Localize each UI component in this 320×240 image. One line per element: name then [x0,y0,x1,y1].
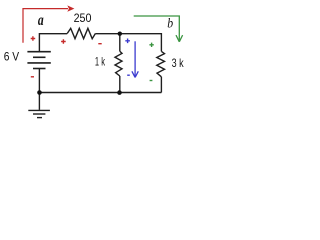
R2 plus sign (blue) [125,39,130,44]
node junction dot top of 1k [118,32,122,36]
voltage arrow across 1k (blue) [132,41,138,77]
wire battery bottom stub down to ground [38,69,40,110]
R3 minus sign (green) [150,80,153,82]
battery plus sign [31,36,36,41]
wire left riser and top-left segment [39,34,67,52]
svg-text:6 V: 6 V [4,50,19,64]
battery minus sign [31,76,34,78]
current arrow a head [67,5,74,11]
svg-text:a: a [38,12,44,29]
resistor R3 3k [157,51,165,76]
R3 plus sign (green) [149,43,153,47]
wire 3k top stub [160,33,162,51]
R2 minus sign (blue) [127,74,130,76]
current arrow a (red) [23,9,68,43]
R1 plus sign (red) [61,39,66,44]
voltage arrow b (green) [134,16,183,42]
wire bottom segment [39,92,161,94]
node junction dot bottom of 1k [117,90,122,95]
svg-text:3 k: 3 k [172,56,185,70]
resistor R1 250 [67,28,95,38]
wire 1k bottom stub [119,76,121,93]
svg-text:1 k: 1 k [95,55,106,69]
resistor R2 1k [115,51,122,76]
node junction dot bottom of battery [37,90,42,95]
R1 minus sign (red) [98,43,101,45]
ground symbol [28,110,50,117]
battery V1 plates [27,52,50,69]
svg-text:250: 250 [74,11,92,25]
wire 1k top stub [119,34,121,52]
wire 3k bottom stub [160,77,162,93]
svg-text:b: b [167,16,173,31]
wire top-right segment [95,33,161,35]
